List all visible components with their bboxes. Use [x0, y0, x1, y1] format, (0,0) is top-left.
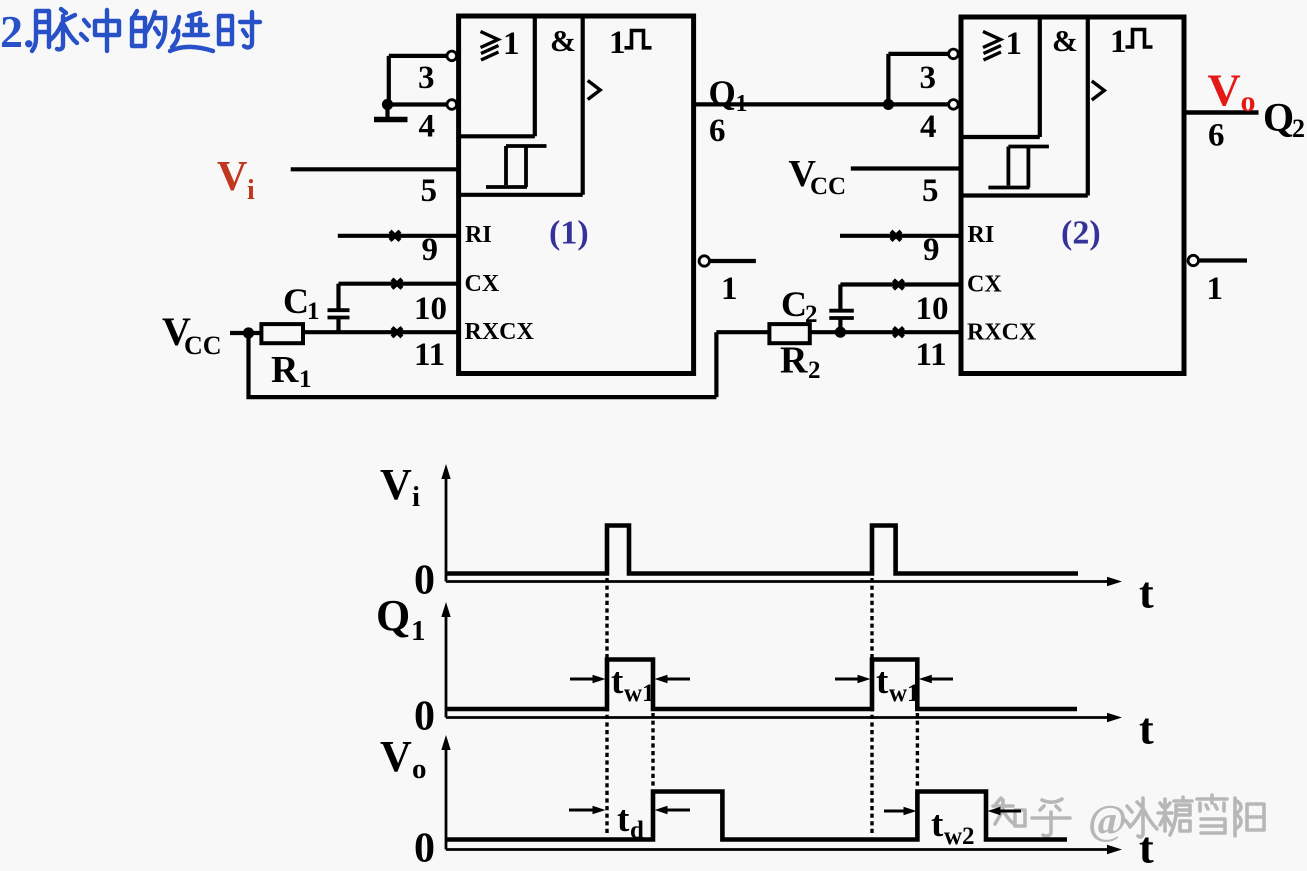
wire pin4 U1: [385, 102, 447, 106]
resistor R1: [261, 324, 303, 343]
U1 edge chevron: [588, 81, 601, 100]
IC1_PINS_BLOCK: [961, 17, 1184, 374]
wire pin11 RXCX U2: [810, 330, 961, 334]
svg-text:RXCX: RXCX: [465, 319, 535, 345]
dotted guide Q1 fall 2: [916, 713, 919, 789]
arrowhead tw2 right: [988, 807, 1001, 816]
junction dot Q1 branch: [883, 99, 894, 110]
arrow line tw1 right: [666, 678, 690, 681]
svg-text:(1): (1): [549, 215, 589, 252]
svg-text:(2): (2): [1061, 215, 1101, 252]
svg-text:2.: 2.: [0, 6, 35, 57]
svg-text:i: i: [247, 175, 255, 206]
svg-text:Q: Q: [1263, 95, 1294, 140]
arrow line tw2 right: [999, 810, 1021, 813]
arrowhead Q1 x-axis: [1107, 713, 1122, 722]
svg-text:&: &: [1052, 23, 1078, 58]
axis Vo horizontal: [446, 848, 1110, 851]
wire pin11 RXCX: [303, 330, 459, 334]
svg-text:R: R: [780, 340, 808, 382]
wire Vo output: [1184, 110, 1259, 115]
dotted guide Q1 fall 1: [651, 713, 654, 789]
svg-text:t: t: [876, 661, 889, 702]
wire Vcc to R1: [230, 331, 261, 335]
pin4 bubble U2: [949, 100, 959, 110]
U2 edge chevron: [1092, 81, 1105, 100]
arrow line tw2 left: [884, 810, 906, 813]
U2 greater-equal symbol: [983, 32, 1001, 61]
arrowhead Vi y-axis: [441, 464, 450, 479]
svg-text:w1: w1: [624, 680, 655, 707]
svg-text:@: @: [1088, 798, 1127, 844]
capacitor C1 plates: [328, 310, 350, 317]
svg-text:t: t: [617, 799, 630, 840]
monostable U1 box: [459, 16, 694, 374]
wire pin3-pin4 vertical: [387, 56, 391, 105]
pin1 bubble U2: [1188, 255, 1198, 265]
wire pin10 CX: [339, 282, 459, 286]
arrow line tw1 left: [570, 678, 594, 681]
pin3 bubble U2: [949, 49, 959, 59]
title char chong: [81, 10, 119, 51]
svg-text:C: C: [283, 281, 309, 321]
svg-text:5: 5: [922, 173, 939, 209]
svg-text:11: 11: [414, 337, 445, 373]
ground stub: [385, 105, 389, 118]
wire U2 pin1 output: [1199, 258, 1247, 262]
svg-text:3: 3: [418, 60, 435, 96]
svg-text:1: 1: [736, 91, 748, 117]
title char mai (pulse): [32, 9, 77, 51]
WATERMARK_BLOCK: [459, 16, 694, 374]
arrow line td left: [569, 809, 593, 812]
pin3 bubble U1: [447, 51, 457, 61]
ground bar: [374, 117, 408, 123]
wire U1 pin1 output: [710, 259, 756, 263]
wire Vcc down: [246, 333, 250, 395]
svg-text:V: V: [380, 732, 412, 781]
svg-text:t: t: [931, 804, 944, 845]
junction dot Vcc: [243, 327, 254, 338]
svg-text:t: t: [1139, 705, 1154, 754]
arrowhead td left: [593, 806, 606, 815]
title char de: [132, 11, 165, 47]
arrowhead tw2 left: [904, 807, 917, 816]
wire Vcc to pin5 U2: [851, 166, 961, 170]
svg-text:CC: CC: [184, 331, 222, 360]
arrow line tw1b left: [835, 678, 859, 681]
wire pin10 CX U2: [840, 282, 961, 286]
watermark char zhi: [993, 798, 1025, 826]
watermark char yang: [1235, 798, 1264, 836]
watermark char tang: [1158, 797, 1192, 835]
U1 schmitt hysteresis symbol: [486, 146, 547, 187]
svg-text:w2: w2: [944, 823, 975, 850]
capacitor C1 top lead: [336, 284, 340, 309]
capacitor C2 top lead: [838, 285, 842, 310]
capacitor C2 bottom lead: [838, 319, 842, 333]
svg-text:1: 1: [1207, 271, 1224, 307]
svg-text:V: V: [1208, 65, 1241, 116]
svg-text:Q: Q: [709, 74, 736, 113]
svg-text:t: t: [611, 661, 624, 702]
svg-text:d: d: [630, 817, 644, 844]
cross on RI wire U2: [891, 231, 901, 240]
dotted guide Vi rise 2: [870, 578, 873, 836]
wire bottom run to R2: [246, 332, 769, 397]
U1 AND-section divider: [459, 16, 583, 195]
svg-text:9: 9: [923, 232, 940, 268]
waveform Q1: [447, 660, 1077, 710]
cross on RXCX wire U2: [894, 328, 904, 337]
junction dot C2-RXCX: [835, 327, 846, 338]
U1 OR-section divider: [459, 16, 535, 136]
waveform Vi: [447, 526, 1078, 574]
junction dot pin4-ground: [382, 99, 393, 110]
axis Vi vertical: [445, 476, 448, 582]
svg-text:6: 6: [709, 113, 726, 149]
watermark char bing: [1125, 798, 1157, 837]
waveform Vo: [447, 792, 1067, 840]
svg-text:1: 1: [307, 298, 320, 325]
axis Q1 vertical: [445, 614, 448, 718]
svg-text:10: 10: [916, 291, 949, 327]
U1 greater-equal symbol: [481, 32, 499, 61]
arrowhead Vo x-axis: [1107, 845, 1122, 854]
svg-text:6: 6: [1208, 118, 1225, 154]
TITLE_BLOCK: [993, 795, 1264, 844]
U2 AND-section divider: [961, 17, 1088, 196]
svg-text:o: o: [1241, 85, 1256, 118]
IC2_BLOCK: [694, 54, 1259, 332]
arrowhead Vo y-axis: [441, 735, 450, 750]
watermark char hu: [1032, 799, 1070, 836]
wire pin9 RI: [338, 234, 459, 238]
svg-text:RI: RI: [465, 222, 492, 248]
svg-text:1: 1: [1110, 24, 1127, 60]
svg-text:0: 0: [414, 558, 435, 604]
svg-text:0: 0: [414, 694, 435, 740]
svg-text:5: 5: [421, 173, 438, 209]
cross on RI wire: [390, 231, 400, 240]
wire pin3 U1: [389, 54, 447, 58]
svg-text:CX: CX: [967, 272, 1002, 298]
arrowhead Q1 y-axis: [441, 602, 450, 617]
svg-text:R: R: [271, 349, 299, 391]
axis Q1 horizontal: [446, 716, 1110, 719]
IC1_BLOCK: [230, 56, 769, 397]
svg-text:9: 9: [422, 232, 439, 268]
dotted guide Vi rise 1: [605, 578, 608, 836]
svg-text:C: C: [781, 284, 807, 324]
U2 pulse glyph: [1126, 30, 1153, 48]
svg-text:CX: CX: [465, 271, 500, 297]
U2 OR-section divider: [961, 17, 1040, 137]
resistor R2: [769, 324, 809, 343]
arrowhead tw1 left: [593, 675, 606, 684]
axis Vi horizontal: [446, 580, 1110, 583]
svg-text:2: 2: [1292, 114, 1305, 143]
wire Vi to pin5: [291, 167, 459, 171]
title char shi (time): [219, 12, 260, 47]
cross on RXCX wire: [392, 328, 402, 337]
capacitor C2 plates: [829, 311, 854, 318]
IC2_PINS_BLOCK: [446, 476, 1110, 850]
svg-text:i: i: [412, 481, 420, 513]
svg-text:1: 1: [609, 25, 626, 61]
svg-text:w1: w1: [889, 680, 920, 707]
svg-text:Q: Q: [376, 591, 410, 640]
svg-text:t: t: [1139, 824, 1154, 871]
svg-text:t: t: [1139, 569, 1154, 618]
wire Q1 branch vertical: [886, 54, 890, 105]
svg-text:V: V: [380, 460, 412, 509]
watermark char xue: [1197, 795, 1227, 833]
wire pin9 RI U2: [840, 234, 961, 238]
svg-text:1: 1: [299, 366, 312, 393]
svg-text:&: &: [550, 23, 576, 58]
svg-text:4: 4: [920, 109, 937, 145]
title char yan (delay): [170, 13, 213, 51]
wire pin3 U2: [888, 52, 948, 56]
pin4 bubble U1: [447, 100, 457, 110]
arrowhead tw1b right: [919, 675, 932, 684]
monostable U2 box: [961, 17, 1184, 374]
arrowhead td right: [655, 806, 668, 815]
arrowhead tw1b left: [858, 675, 871, 684]
arrowhead tw1 right: [655, 675, 668, 684]
node Q1 wire U1 to U2 pin4: [694, 102, 949, 106]
svg-text:0: 0: [414, 826, 435, 871]
svg-text:1: 1: [411, 615, 426, 647]
svg-text:3: 3: [920, 60, 937, 96]
capacitor C1 bottom lead: [336, 318, 340, 332]
svg-text:RI: RI: [968, 222, 995, 248]
arrow line td right: [666, 809, 690, 812]
svg-text:2: 2: [805, 301, 818, 328]
cross on CX wire U2: [894, 280, 904, 289]
U1 pulse glyph: [625, 31, 652, 48]
svg-text:1: 1: [503, 26, 520, 62]
svg-text:2: 2: [808, 357, 821, 384]
arrow line tw1b right: [930, 678, 953, 681]
svg-text:RXCX: RXCX: [967, 320, 1037, 346]
U2 schmitt hysteresis symbol: [988, 147, 1049, 188]
svg-text:V: V: [217, 154, 247, 200]
axis Vo vertical: [445, 747, 448, 850]
svg-text:1: 1: [1006, 26, 1023, 62]
svg-text:CC: CC: [810, 173, 846, 200]
cross on CX wire: [392, 279, 402, 288]
svg-text:10: 10: [414, 291, 447, 327]
svg-text:4: 4: [419, 109, 436, 145]
pin1 bubble U1: [699, 256, 709, 266]
svg-text:11: 11: [916, 337, 947, 373]
svg-text:o: o: [412, 753, 427, 785]
svg-text:1: 1: [721, 271, 738, 307]
arrowhead Vi x-axis: [1107, 577, 1122, 586]
